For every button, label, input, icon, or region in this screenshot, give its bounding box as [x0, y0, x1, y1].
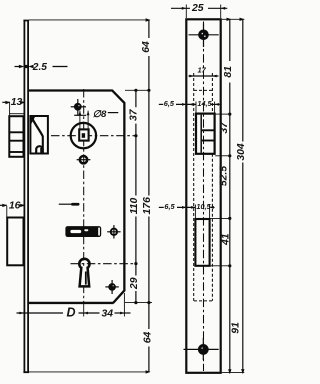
keyhole slot: [80, 267, 90, 287]
lock case outline: [29, 91, 124, 303]
dim 25 extensions: [185, 5, 187, 19]
ext lines for 10,5: [194, 205, 196, 220]
latch window: [196, 114, 215, 154]
svg-text:81: 81: [223, 66, 234, 78]
ext lines for 14,5: [195, 102, 197, 114]
svg-text:6,5: 6,5: [164, 202, 175, 211]
svg-text:34: 34: [102, 309, 114, 320]
horizontal centerline through follower: [51, 135, 137, 137]
svg-text:37: 37: [129, 108, 140, 121]
follower circle: [71, 123, 96, 148]
dim 16 line: [0, 204, 7, 206]
junction dots: [134, 89, 137, 92]
extension plate top right: [222, 18, 245, 20]
dim D arrows: [19, 312, 23, 315]
case hidden bottom dashed: [194, 300, 212, 302]
latch window inner bar 2: [202, 140, 214, 142]
dim D line: [17, 312, 64, 314]
dia-8 arrow left: [79, 111, 82, 115]
latch top thin line: [9, 113, 23, 115]
faceplate edge view (right line): [27, 21, 29, 373]
lever bar: [65, 226, 101, 237]
follower center blob: [82, 133, 85, 138]
faceplate edge view (left line): [23, 21, 25, 373]
extension line faceplate top to 64-dim: [29, 19, 149, 21]
vertical centerline of case: [83, 89, 85, 304]
svg-text:6,5: 6,5: [164, 99, 175, 108]
latch serration line 3: [10, 151, 23, 153]
faceplate bottom cap: [23, 371, 29, 373]
svg-text:14,5: 14,5: [197, 99, 212, 108]
svg-text:17: 17: [198, 66, 207, 75]
extension line faceplate bottom to 64-dim: [29, 371, 149, 373]
deadbolt protrusion: [7, 218, 23, 266]
latch bevel diagonal: [32, 118, 43, 137]
dim 25 line: [171, 7, 190, 9]
svg-text:176: 176: [142, 197, 153, 215]
latch bevel wedge: [31, 117, 35, 125]
dim 13 line: [2, 101, 10, 103]
case hidden outline dashed left: [193, 73, 195, 301]
hole below follower crosshair: [77, 159, 91, 161]
dia-8 leader dash: [108, 112, 119, 114]
latch window inner vertical: [200, 115, 202, 153]
svg-text:52.5: 52.5: [218, 166, 229, 186]
svg-text:∅8: ∅8: [93, 109, 107, 120]
dim column 81/37/52.5/41/91: [229, 19, 231, 61]
latch serration line 2: [10, 140, 23, 142]
window extension lines to dim column: [215, 113, 229, 115]
latch serration line 1: [10, 131, 23, 133]
latch bevel vertical: [42, 136, 44, 153]
keyhole inner line: [85, 272, 87, 285]
horizontal centerline through keyhole: [71, 263, 138, 265]
top screw hole: [198, 30, 209, 41]
dim 13 extension: [9, 103, 11, 116]
bottom screw hole: [198, 344, 209, 355]
latch detail box inside case: [30, 116, 48, 154]
corner arrow top: [146, 18, 151, 21]
centerline extension to D-dim: [83, 304, 85, 317]
svg-text:64: 64: [141, 41, 152, 53]
svg-text:25: 25: [191, 3, 204, 14]
latch spring arc: [36, 146, 42, 152]
deadbolt window: [195, 219, 209, 266]
dim 16 arrows: [2, 204, 7, 207]
dim 2.5 arrows: [15, 66, 20, 68]
dim column 37/110/29: [135, 90, 137, 107]
hole above follower: [74, 103, 82, 111]
stop pin: [71, 203, 80, 206]
svg-text:91: 91: [231, 322, 242, 334]
lever bar slot: [70, 230, 81, 233]
dia-8 dimension extension right: [87, 111, 89, 129]
lever bar white line: [98, 228, 100, 236]
hole above follower crosshair: [71, 106, 86, 108]
corner arrow bottom of 304: [241, 369, 244, 374]
corner arrow top of 304: [240, 18, 245, 21]
dia-8 dimension extension left: [79, 111, 81, 129]
svg-text:64: 64: [143, 332, 154, 344]
case hidden outline dashed right: [211, 73, 213, 114]
svg-text:16: 16: [9, 200, 21, 211]
extension line case top to dims: [125, 89, 150, 91]
svg-text:37: 37: [219, 121, 230, 134]
corner arrow bottom: [146, 370, 151, 373]
svg-text:41: 41: [221, 233, 232, 246]
corner arrow bottom of 91: [228, 369, 231, 374]
latch bolt protrusion: [9, 116, 23, 157]
corner arrow top of 81: [227, 18, 232, 21]
latch window inner bar 1: [202, 129, 214, 131]
stop pin leader: [59, 203, 71, 205]
svg-text:13: 13: [11, 97, 23, 108]
keyhole circle: [79, 259, 89, 269]
dim 6,5 / 14,5 top: [159, 103, 163, 105]
extension line case bottom to dims: [125, 302, 152, 304]
svg-text:2.5: 2.5: [32, 62, 47, 73]
case hidden top dashed: [194, 89, 212, 91]
dim 2.5 leader dash: [53, 66, 68, 68]
dim 25 arrows: [182, 7, 187, 10]
dim column 304: [242, 19, 244, 141]
dim 6,5 / 10,5 bottom: [159, 206, 164, 208]
fixing hole right lower: [108, 283, 116, 291]
latch spring dark blob: [40, 148, 42, 153]
extension case corner to D-dim: [123, 293, 125, 317]
fixing hole right upper: [111, 229, 117, 235]
dia-8 dim line: [74, 114, 86, 116]
extension plate bottom right: [222, 372, 245, 374]
dim 16 extension: [6, 206, 8, 218]
dim 17 line: [189, 75, 219, 77]
dia-8 arrow right: [87, 111, 90, 115]
faceplate front view outline: [186, 19, 220, 373]
svg-text:304: 304: [236, 143, 247, 161]
dim 13 arrows: [5, 101, 10, 104]
svg-text:29: 29: [129, 277, 140, 290]
plate centerline: [203, 22, 205, 372]
dim column 64/176/64: [148, 20, 150, 38]
svg-text:D: D: [67, 306, 76, 320]
svg-text:110: 110: [129, 198, 140, 215]
hole below follower: [80, 156, 87, 163]
follower square: [79, 129, 88, 140]
faceplate top cap: [23, 20, 29, 22]
dim 17 arrows: [189, 75, 193, 78]
